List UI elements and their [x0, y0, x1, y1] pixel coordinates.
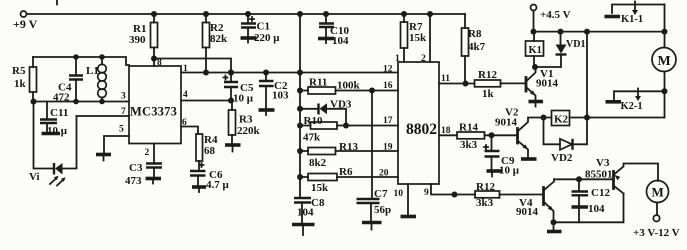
node rail VD1 — [558, 29, 564, 35]
node M1 bottom — [662, 88, 668, 94]
ground C2 — [259, 110, 275, 115]
wire K1/VD1 bottom join — [534, 66, 561, 68]
wire tank bottom / pin3 — [34, 101, 130, 103]
node R2 bottom on pin1 line — [203, 70, 209, 76]
transistor V4 9014 — [516, 179, 554, 222]
svg-text:100k: 100k — [337, 80, 361, 92]
svg-text:8k2: 8k2 — [309, 157, 327, 169]
ground pin10 — [401, 215, 417, 219]
svg-text:104: 104 — [297, 207, 314, 219]
relay coil K1 — [526, 32, 544, 67]
op-amp U1 MC3373 — [129, 66, 181, 144]
svg-text:R3: R3 — [239, 114, 253, 126]
svg-text:11: 11 — [441, 74, 450, 84]
svg-text:68: 68 — [204, 145, 216, 157]
svg-text:C12: C12 — [591, 187, 610, 199]
svg-text:C11: C11 — [50, 107, 68, 119]
svg-text:3k3: 3k3 — [460, 139, 478, 151]
wire V4 collector to V3 base — [554, 178, 613, 180]
svg-text:R10: R10 — [304, 115, 323, 127]
wire x587 drop — [586, 32, 588, 118]
wire pin6 — [181, 127, 198, 135]
node R14/C9 — [489, 132, 495, 138]
svg-text:8802: 8802 — [406, 121, 437, 138]
svg-text:L1: L1 — [86, 65, 99, 77]
node rail M1 — [662, 29, 668, 35]
svg-text:82k: 82k — [210, 33, 228, 45]
ground V2 — [521, 157, 537, 161]
resistor R7 — [401, 11, 428, 62]
node V2 collector — [541, 115, 547, 121]
svg-text:K1-1: K1-1 — [621, 14, 643, 25]
ground R3 — [225, 145, 241, 152]
svg-text:R6: R6 — [339, 166, 353, 178]
ground V4 — [547, 219, 562, 231]
capacitor C8 — [292, 197, 325, 235]
node rail K1 — [531, 29, 537, 35]
wire vertical x300 rail — [299, 14, 301, 198]
capacitor C10 — [318, 11, 349, 47]
svg-text:19: 19 — [383, 143, 393, 153]
svg-text:10 μ: 10 μ — [233, 93, 254, 105]
node VD3/R10 join — [343, 123, 349, 129]
capacitor C6 — [190, 163, 230, 192]
svg-text:10 μ: 10 μ — [47, 125, 68, 137]
node R1 bottom — [151, 56, 157, 62]
svg-text:16: 16 — [383, 81, 393, 91]
svg-text:104: 104 — [332, 35, 349, 47]
resistor R6 — [297, 166, 398, 194]
wire K2-1 bottom line — [587, 117, 665, 119]
svg-text:R12: R12 — [476, 181, 495, 193]
contact K2-1 — [606, 89, 665, 118]
contact K1-1 — [605, 2, 665, 32]
wire pin18 — [439, 134, 457, 136]
svg-text:9014: 9014 — [536, 78, 559, 90]
node R1 top — [151, 11, 157, 17]
svg-text:1k: 1k — [482, 88, 495, 100]
svg-text:C1: C1 — [257, 21, 270, 33]
node C5 top — [228, 70, 234, 76]
svg-text:220 μ: 220 μ — [254, 32, 280, 44]
svg-text:K1: K1 — [529, 45, 542, 56]
svg-text:4k7: 4k7 — [468, 41, 486, 53]
svg-text:47k: 47k — [303, 132, 321, 144]
svg-text:R8: R8 — [468, 28, 482, 40]
svg-text:104: 104 — [588, 203, 605, 215]
capacitor C2 — [259, 70, 289, 109]
svg-text:390: 390 — [129, 34, 146, 46]
wire top supply bus — [27, 13, 465, 15]
ground pin5 — [96, 155, 111, 161]
svg-text:15k: 15k — [311, 182, 329, 194]
svg-text:M: M — [652, 185, 664, 200]
svg-text:R14: R14 — [459, 122, 478, 134]
transistor V3 85501 — [585, 157, 658, 194]
inductor L1 — [86, 54, 106, 101]
svg-text:12: 12 — [383, 65, 393, 75]
ground V1 — [529, 102, 544, 107]
svg-text:85501: 85501 — [585, 169, 613, 181]
resistor R5 — [12, 57, 37, 102]
resistor R3 — [229, 101, 261, 144]
resistor R8 — [462, 14, 486, 84]
svg-text:20: 20 — [379, 169, 389, 179]
capacitor C4 — [53, 54, 83, 103]
wire pin8 stub — [153, 59, 155, 67]
node pin4/C5/R3 — [228, 98, 234, 104]
wire pin11 — [439, 83, 475, 85]
diode VD2 — [544, 118, 588, 165]
svg-text:1k: 1k — [14, 78, 27, 90]
wire pin1/pin12 long line — [181, 72, 398, 74]
svg-text:+9 V: +9 V — [13, 17, 38, 31]
wire pin10 — [407, 184, 409, 215]
svg-text:R11: R11 — [309, 77, 327, 89]
svg-text:5: 5 — [119, 125, 124, 135]
svg-text:V3: V3 — [596, 157, 610, 169]
wire +4.5V rail — [534, 31, 665, 33]
wire pin4 — [181, 100, 231, 102]
node bus x300 — [297, 11, 303, 17]
svg-text:R5: R5 — [12, 65, 26, 77]
node V1 collector — [532, 64, 538, 70]
svg-text:Vi: Vi — [29, 171, 40, 183]
resistor R2 — [203, 14, 229, 73]
svg-text:R13: R13 — [339, 141, 358, 153]
capacitor C9 — [484, 135, 520, 176]
svg-text:+3 V-12 V: +3 V-12 V — [633, 227, 680, 239]
svg-text:MC3373: MC3373 — [130, 105, 177, 119]
motor M1 — [652, 32, 676, 92]
wire pin17 — [346, 125, 398, 127]
node rail x587 — [584, 29, 590, 35]
capacitor C5 — [224, 70, 254, 105]
capacitor C12 — [572, 176, 611, 222]
motor M2 — [647, 181, 669, 216]
node R2 top — [203, 11, 209, 17]
resistor R1 — [129, 14, 158, 59]
wire pin5 — [104, 136, 129, 153]
svg-text:220k: 220k — [237, 125, 261, 137]
resistor R12 3k3 — [475, 181, 543, 209]
svg-text:VD3: VD3 — [330, 99, 352, 111]
wire tank top line — [33, 57, 129, 65]
node R8 bottom — [463, 81, 469, 87]
svg-text:473: 473 — [125, 175, 142, 187]
svg-text:2: 2 — [145, 148, 150, 158]
resistor R12 1k — [475, 69, 527, 100]
IC U2 8802 — [398, 62, 439, 184]
terminal +4.5V — [531, 5, 571, 32]
diode VD1 — [556, 32, 586, 67]
node x587 bottom — [584, 115, 590, 121]
svg-text:M: M — [658, 54, 671, 69]
node R5 bottom — [31, 99, 37, 105]
terminal +3V-12V — [633, 215, 680, 239]
node x300 on pin12 line — [297, 70, 303, 76]
capacitor C7 — [357, 91, 392, 230]
node C4 bottom — [73, 99, 79, 105]
capacitor C3 — [125, 144, 162, 188]
svg-text:3k3: 3k3 — [476, 197, 494, 209]
svg-text:7: 7 — [121, 107, 126, 117]
resistor R14 — [457, 122, 518, 152]
resistor R13 — [297, 141, 398, 169]
wire R1 to C5 node — [154, 59, 231, 73]
relay coil K2 — [544, 111, 588, 126]
svg-text:56p: 56p — [374, 204, 391, 216]
svg-text:10: 10 — [394, 189, 404, 199]
node C7 tap on pin16 line — [369, 88, 375, 94]
svg-text:C3: C3 — [129, 162, 143, 174]
svg-text:9014: 9014 — [495, 117, 518, 129]
wire pin2 drop — [427, 11, 433, 17]
svg-text:K2-1: K2-1 — [621, 101, 643, 112]
resistor R11 — [297, 77, 398, 95]
diode VD3 — [297, 99, 352, 126]
svg-text:9014: 9014 — [516, 206, 539, 218]
wire bottom return — [554, 194, 624, 223]
node pin9 wire — [452, 192, 458, 198]
svg-text:17: 17 — [383, 116, 393, 126]
transistor V2 9014 — [495, 107, 544, 158]
photodiode Vi — [29, 102, 77, 186]
resistor R4 — [196, 134, 218, 171]
svg-text:K2: K2 — [554, 114, 569, 126]
svg-text:3: 3 — [121, 92, 126, 102]
wire pin9 — [431, 184, 475, 195]
svg-text:R12: R12 — [478, 69, 497, 81]
capacitor C11 — [40, 102, 68, 138]
svg-text:VD2: VD2 — [551, 152, 573, 164]
terminal +9V — [13, 11, 38, 31]
svg-text:4: 4 — [183, 90, 188, 100]
svg-text:4.7 μ: 4.7 μ — [206, 179, 230, 191]
svg-text:+4.5 V: +4.5 V — [540, 9, 571, 21]
svg-text:C7: C7 — [374, 188, 388, 200]
capacitor C1 — [241, 11, 281, 44]
resistor R10 — [297, 115, 346, 144]
wire pin7 — [77, 115, 130, 117]
svg-text:103: 103 — [272, 90, 289, 102]
wire stray tick top edge — [56, 0, 58, 5]
svg-text:10 μ: 10 μ — [499, 165, 520, 177]
node L1 bottom — [99, 99, 105, 105]
svg-text:VD1: VD1 — [566, 39, 585, 50]
svg-text:15k: 15k — [409, 32, 427, 44]
svg-text:9: 9 — [424, 188, 429, 198]
transistor V1 9014 — [526, 68, 559, 101]
